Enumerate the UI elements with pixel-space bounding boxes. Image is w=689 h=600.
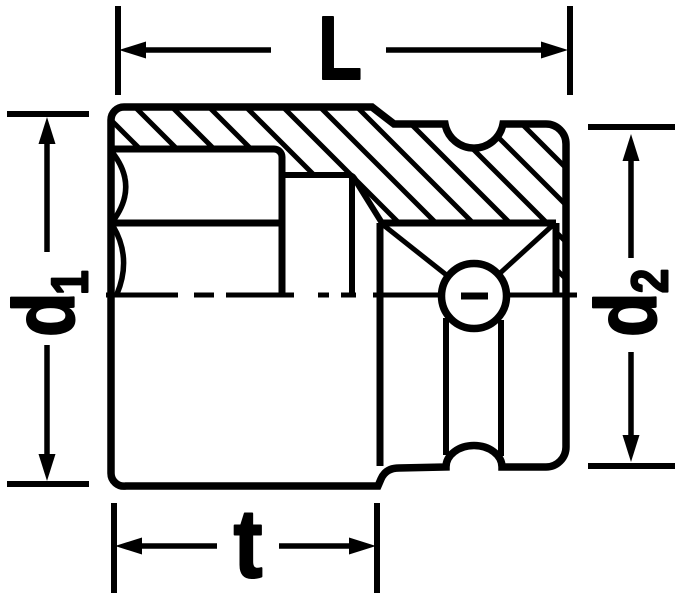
ball groove edge right (bottom half): [498, 320, 504, 456]
dimension d1: bottom arrow: [39, 454, 56, 481]
hex socket cavity: top face line: [111, 149, 282, 297]
dimension d2: top extension line: [588, 124, 675, 130]
intermediate bore right wall: [349, 177, 355, 297]
dimension d2: bottom arrow: [623, 435, 640, 462]
dimension d2: bottom extension line: [588, 463, 675, 469]
square drive hole: left wall / step edge: [377, 223, 384, 466]
ball groove edge left (bottom half): [443, 318, 449, 455]
hex socket entry arc lower: [113, 226, 124, 294]
outer body profile: [111, 107, 566, 486]
hex socket cavity: mid edge line: [112, 220, 282, 227]
dimension L: left extension line: [115, 6, 121, 95]
dimension t: left arrow: [115, 538, 142, 555]
dimension d1: bottom extension line: [7, 481, 89, 487]
dimension t: right extension line: [374, 503, 380, 593]
square hole corner diagonal right: [498, 224, 554, 275]
square drive hole: right wall: [553, 223, 560, 295]
square hole corner diagonal left: [382, 224, 449, 277]
svg-text:t: t: [233, 489, 262, 598]
intermediate bore: top line and wall: [282, 175, 382, 223]
ball detent circle: [442, 264, 507, 329]
dimension d1: top arrow: [39, 117, 56, 144]
square drive hole: top line: [379, 220, 556, 227]
ball center dash: [461, 293, 488, 300]
hex socket entry arc upper: [112, 152, 126, 221]
centerline (dash-dot axis): [106, 293, 577, 298]
svg-text:L: L: [318, 0, 362, 99]
dimension L: right extension line: [567, 6, 573, 95]
dimension L: right arrow: [541, 42, 568, 59]
dimension L: left arrow: [119, 42, 146, 59]
dimension t: right arrow: [349, 538, 376, 555]
dimension d1: top extension line: [7, 111, 89, 117]
dimension t: left extension line: [111, 503, 117, 593]
dimension d2: top arrow: [623, 134, 640, 161]
hatching (section lines, 45 deg): [78, 87, 689, 327]
